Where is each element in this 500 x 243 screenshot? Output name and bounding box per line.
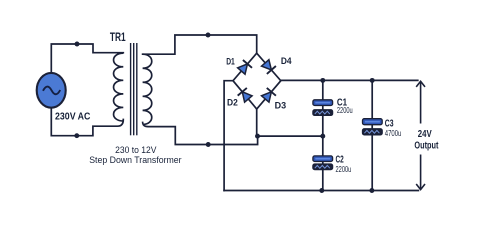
junction 0V rail / C3 bottom — [369, 188, 374, 193]
capacitor C2 — [313, 156, 333, 170]
24V output arrow — [416, 81, 425, 189]
transformer TR1 core — [131, 43, 137, 135]
wire: C3 column — [371, 80, 373, 190]
svg-text:230V AC: 230V AC — [55, 112, 91, 123]
wire: top +V rail — [281, 79, 418, 81]
wire: mid rail — [258, 135, 323, 137]
junction +V rail / C1 top — [320, 78, 325, 83]
junction on primary top wire — [75, 42, 80, 47]
wire: source top to transformer primary top — [51, 44, 123, 73]
wire: C1/C2 column — [322, 80, 324, 190]
wire: bottom 0V rail — [224, 190, 418, 192]
wire: transformer secondary top to bridge top — [143, 35, 257, 54]
diode D2 — [238, 88, 253, 103]
svg-text:24V: 24V — [418, 129, 432, 140]
junction 0V rail / C2 bottom — [319, 188, 324, 193]
wire: bridge left vertex down to 0V rail — [224, 81, 233, 191]
wire: source bottom to transformer primary bottom — [51, 107, 123, 136]
svg-text:Step Down Transformer: Step Down Transformer — [89, 154, 181, 165]
wire: transformer secondary bottom to bridge AC node — [143, 123, 258, 145]
capacitor C1 — [313, 100, 333, 116]
transformer TR1 secondary coil — [143, 54, 152, 124]
transformer TR1 primary coil — [114, 53, 124, 121]
junction on primary bottom wire — [74, 133, 79, 138]
svg-text:D2: D2 — [227, 98, 238, 109]
junction node AC2 / C-midpoint left — [255, 134, 260, 139]
junction C1-C2 midpoint — [320, 134, 325, 139]
svg-text:4700u: 4700u — [385, 128, 402, 138]
bridge diamond — [233, 53, 281, 109]
diode D1 — [237, 60, 252, 75]
svg-text:D4: D4 — [281, 56, 292, 67]
junction on secondary bottom wire — [206, 142, 211, 147]
svg-text:D1: D1 — [226, 56, 235, 67]
junction +V rail / C3 top — [370, 78, 375, 83]
diode D4 — [261, 59, 276, 74]
junction on secondary top wire — [206, 33, 211, 38]
svg-text:Output: Output — [414, 140, 438, 151]
wire: bridge bottom vertex stub — [256, 109, 258, 136]
capacitor C3 — [363, 119, 383, 135]
svg-text:2200u: 2200u — [337, 105, 353, 115]
AC source V1 230V — [37, 73, 66, 108]
diode D3 — [261, 88, 276, 103]
svg-text:TR1: TR1 — [110, 30, 126, 44]
svg-text:2200u: 2200u — [336, 164, 352, 174]
svg-text:D3: D3 — [275, 101, 287, 112]
